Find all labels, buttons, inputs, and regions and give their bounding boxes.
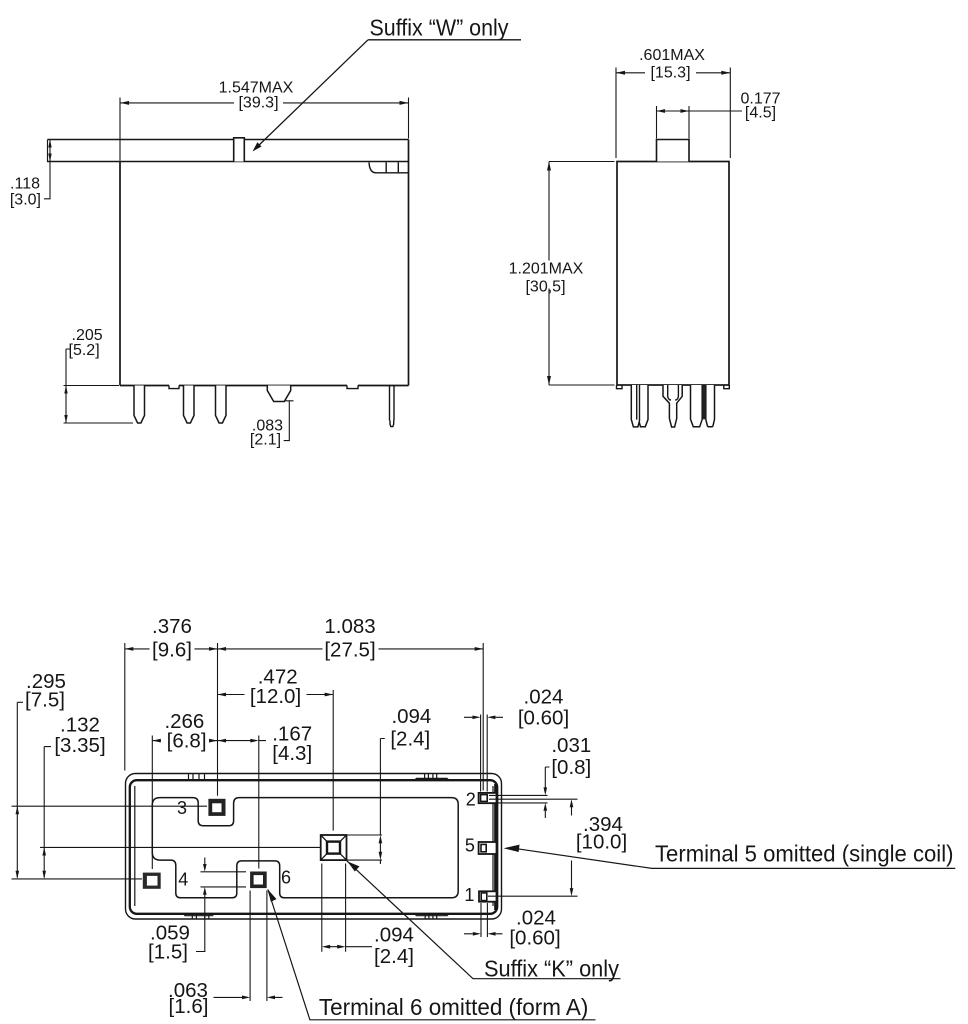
flange left end vertical	[47, 140, 49, 162]
terminal pad 2	[479, 793, 497, 803]
svg-text:.031: .031	[551, 734, 591, 757]
dim .083 leader	[284, 401, 294, 441]
side pin group left (pair)	[631, 385, 648, 427]
center coil pin front	[267, 386, 290, 402]
dim .059 extension lines	[201, 872, 247, 887]
svg-text:[12.0]: [12.0]	[250, 685, 301, 708]
arrowheads 1.547MAX	[120, 101, 129, 105]
dim 1.547MAX dimension line	[120, 102, 409, 104]
dim 0.177 extension lines	[657, 106, 690, 139]
pin 3 front	[216, 386, 227, 424]
dim 1.547MAX extension lines	[120, 98, 409, 161]
svg-text:Suffix “K” only: Suffix “K” only	[484, 955, 619, 981]
svg-text:[0.8]: [0.8]	[551, 756, 591, 779]
extension line terminal 1-2 column	[482, 643, 484, 791]
svg-text:.118: .118	[10, 176, 40, 193]
Suffix W arrowhead	[253, 142, 262, 151]
svg-text:3: 3	[177, 798, 187, 818]
arrowheads .295	[16, 806, 20, 814]
arrowheads .024 bottom	[473, 932, 481, 936]
svg-text:[2.4]: [2.4]	[374, 945, 414, 968]
dim .205 dimension line	[66, 349, 71, 423]
front view relay body outline	[120, 140, 409, 386]
bottom view inner wall line left	[134, 786, 136, 906]
arrowheads .094 bottom	[322, 945, 330, 949]
inner cavity contour	[152, 798, 458, 898]
right thin pin front	[390, 386, 395, 427]
dim .094 bottom extension lines	[322, 864, 346, 952]
arrowheads .031	[544, 787, 548, 795]
extension line terminal 6 column	[258, 736, 260, 869]
terminal pad 6	[250, 872, 267, 889]
svg-text:[6.8]: [6.8]	[167, 729, 207, 752]
arrowheads .376	[125, 647, 134, 651]
side view top tab	[657, 140, 690, 162]
dim 1.201MAX extension lines	[549, 162, 615, 386]
extension line K pad column	[332, 690, 334, 831]
dim .063 dimension line	[214, 996, 283, 998]
bottom foot notch right	[347, 386, 358, 389]
svg-text:[10.0]: [10.0]	[576, 831, 627, 854]
side pin group right (pair with dark gap)	[691, 385, 703, 427]
arrowheads .063	[242, 996, 250, 1000]
svg-text:1: 1	[464, 885, 474, 905]
arrowheads .094 top	[379, 835, 383, 843]
svg-text:[2.4]: [2.4]	[390, 727, 430, 750]
dim .031 extension lines from pad 2	[489, 795, 548, 803]
svg-text:5: 5	[465, 835, 475, 855]
extension line case left corner column	[124, 643, 126, 771]
arrowheads .266	[152, 739, 161, 743]
arrowheads .132	[42, 847, 46, 855]
front view flange top line (with .118 extension to left)	[48, 139, 409, 141]
vent notch and slits top right	[415, 774, 450, 781]
arrowheads 1.083	[218, 647, 227, 651]
svg-text:[39.3]: [39.3]	[238, 94, 278, 111]
dim .394 dimension line	[571, 807, 573, 888]
bottom view inner wall line right	[492, 786, 494, 906]
dim .601MAX dimension line	[616, 72, 730, 74]
dim .295/.132 extension line terminal 4 row	[12, 878, 143, 880]
dim .024 top extension lines	[481, 715, 488, 792]
Suffix K leader and underline	[347, 861, 621, 979]
arrowheads .601MAX	[616, 71, 625, 75]
terminal pad 3	[208, 799, 225, 816]
svg-text:[7.5]: [7.5]	[25, 689, 65, 712]
dim .601MAX extension lines	[616, 68, 730, 159]
dim .376 / 1.083 dimension line	[125, 648, 483, 650]
svg-text:4: 4	[178, 870, 188, 890]
dim .059 leader	[196, 858, 205, 952]
dim 0.177 dimension line	[657, 110, 743, 112]
arrowheads .472	[218, 693, 227, 697]
dim .266 dimension line	[152, 740, 217, 742]
Suffix W underline and leader	[256, 40, 522, 149]
arrowheads 1.201MAX	[547, 162, 551, 171]
dim .132 dimension line	[44, 747, 51, 878]
dim .094 top leader	[380, 739, 384, 865]
dim .094 bottom dimension line	[330, 946, 372, 948]
arrowheads .118	[48, 140, 51, 148]
svg-text:.601MAX: .601MAX	[639, 47, 705, 64]
Suffix K arrowhead	[348, 862, 360, 872]
dim .031 leader	[545, 767, 549, 818]
svg-text:[30,5]: [30,5]	[525, 278, 565, 295]
dim .295 dimension line	[17, 702, 23, 877]
svg-text:1.201MAX: 1.201MAX	[509, 260, 584, 277]
svg-text:[3.35]: [3.35]	[54, 734, 105, 757]
svg-text:[15.3]: [15.3]	[650, 64, 690, 81]
side view right corner foot	[724, 385, 730, 389]
dim .118 dimension line and leader	[44, 140, 50, 199]
terminal pad 5	[479, 842, 497, 854]
svg-text:Terminal 5 omitted (single coi: Terminal 5 omitted (single coil)	[655, 841, 954, 867]
svg-text:.376: .376	[152, 615, 192, 638]
bottom view right wall heavy band	[494, 784, 497, 910]
arrowheads .167	[218, 739, 227, 743]
bottom view inner case line	[130, 780, 497, 914]
arrowheads .024 top	[472, 716, 480, 720]
svg-text:[4.3]: [4.3]	[272, 742, 312, 765]
Terminal 6 leader and underline	[268, 890, 596, 1020]
dim .295 extension line terminal 3 row	[12, 805, 208, 807]
side view body outline	[617, 162, 729, 386]
svg-text:1.083: 1.083	[324, 615, 375, 638]
dim .472 dimension line	[218, 694, 334, 696]
center pad suffix K	[321, 835, 347, 860]
svg-text:[9.6]: [9.6]	[152, 638, 192, 661]
svg-text:[2.1]: [2.1]	[250, 431, 281, 448]
dim .094 top extension lines from K pad	[347, 835, 383, 860]
bottom view outer case outline	[126, 774, 502, 920]
dim .394 extension lines	[488, 799, 578, 896]
svg-text:[0.60]: [0.60]	[518, 707, 569, 730]
svg-text:[0.60]: [0.60]	[509, 926, 560, 949]
extension line terminal 4 column	[151, 736, 153, 870]
dim .132 extension line K pad row	[40, 846, 320, 848]
suffix W tab on top	[234, 138, 245, 162]
arrowheads .205	[64, 386, 67, 394]
arrowheads .394	[570, 799, 574, 807]
svg-text:[3.0]: [3.0]	[10, 192, 41, 209]
svg-text:.094: .094	[391, 705, 431, 728]
svg-text:2: 2	[466, 789, 476, 809]
dim .024 top dimension line	[464, 716, 503, 718]
dim .205 extension lines	[64, 386, 134, 424]
extension line terminal 3 column	[217, 643, 219, 796]
svg-text:Suffix “W” only: Suffix “W” only	[370, 15, 509, 41]
Terminal 6 arrowhead	[268, 890, 277, 902]
svg-text:.094: .094	[374, 924, 414, 947]
arrowheads 0.177	[657, 109, 666, 113]
vent notch and slits bottom right	[415, 914, 450, 919]
pin 2 front	[184, 386, 195, 424]
svg-text:.024: .024	[524, 686, 564, 709]
bottom foot notch left	[169, 386, 179, 389]
dim .024 bottom extension lines	[481, 903, 487, 937]
dim 1.201MAX dimension line	[548, 162, 550, 386]
vent slits bottom left	[184, 914, 215, 919]
svg-text:[5.2]: [5.2]	[69, 342, 100, 359]
dim .024 bottom dimension line	[464, 933, 503, 935]
svg-text:[4.5]: [4.5]	[745, 105, 776, 122]
terminal pad 4	[143, 873, 161, 889]
Terminal 5 leader and underline	[518, 849, 956, 869]
dim .063 extension lines	[250, 891, 267, 1002]
svg-text:6: 6	[281, 868, 291, 888]
svg-text:[1.5]: [1.5]	[148, 941, 188, 964]
front view body top line	[47, 161, 409, 163]
svg-text:[27.5]: [27.5]	[324, 638, 375, 661]
side pin group middle (coil fork)	[663, 385, 682, 427]
svg-text:[1.6]: [1.6]	[169, 995, 209, 1018]
vent slits top left	[189, 774, 205, 781]
arrowheads .059	[203, 864, 207, 872]
side view left corner foot	[617, 385, 623, 389]
pin 1 front	[134, 386, 145, 424]
Terminal 5 arrowhead	[504, 845, 520, 852]
vent slot top right of front body	[369, 162, 409, 173]
dim .167 dimension line	[218, 740, 267, 742]
svg-text:Terminal 6 omitted (form A): Terminal 6 omitted (form A)	[319, 994, 589, 1020]
terminal pad 1	[479, 891, 497, 901]
